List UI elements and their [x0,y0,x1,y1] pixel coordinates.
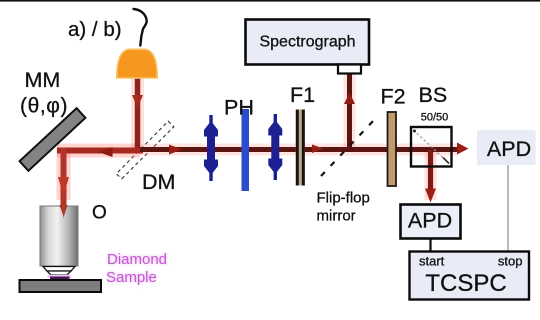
arrow up toward spectrograph [344,93,355,105]
svg-text:BS: BS [419,83,448,107]
svg-text:MM: MM [25,68,61,92]
wire: beam BS down to APD [428,150,433,190]
wire: beam DM to APD (horizontal, detection path) [140,147,458,152]
svg-text:F2: F2 [381,85,406,109]
objective O cylinder [40,206,78,266]
filter F1 [296,110,305,186]
wire APD lower to TCSPC start [429,239,431,252]
svg-text:(θ,φ): (θ,φ) [20,95,68,118]
sample stage [20,280,102,292]
curly brace pointer [134,9,147,46]
wire: beam MM down to objective [61,148,67,206]
svg-text:Spectrograph: Spectrograph [259,34,355,51]
arrow right into APD [457,143,469,155]
wire: beam up to spectrograph [347,74,352,150]
arrow down on source beam [132,95,143,108]
lens L1 [204,115,218,181]
mirror MM [20,108,86,171]
flip-flop mirror (dashed) [321,119,375,176]
svg-text:start: start [419,254,445,269]
filter F2 [388,112,397,186]
arrow down toward objective [58,177,69,196]
wire: beam DM to MM (horizontal) [57,148,143,154]
spectrograph slit [338,65,361,74]
arrow left toward MM [98,147,113,157]
APD right box [477,130,536,165]
TCSPC box [410,252,530,300]
APD lower box [401,205,461,239]
svg-text:Diamond: Diamond [107,251,167,268]
diamond sample [48,275,72,278]
arrow right after F1 [312,145,324,154]
svg-text:F1: F1 [290,83,315,107]
dichroic mirror DM [116,121,174,179]
svg-text:stop: stop [498,254,523,269]
beam glow layer [57,74,458,200]
svg-text:Flip-flop: Flip-flop [317,190,370,207]
beamsplitter BS cube [411,127,452,167]
svg-text:APD: APD [487,137,531,161]
pinhole PH [242,109,250,191]
svg-text:50/50: 50/50 [421,112,449,124]
wire: beam source to DM (vertical) [135,76,141,153]
svg-text:TCSPC: TCSPC [425,270,506,297]
svg-text:APD: APD [408,209,452,233]
arrow right after DM [169,145,182,155]
svg-text:mirror: mirror [317,208,356,225]
top border line [0,0,540,2]
source dome a)/b) [117,49,157,78]
beam converging inside objective [60,205,68,217]
svg-text:PH: PH [224,96,254,120]
lens L2 [268,114,282,180]
svg-text:Sample: Sample [106,269,157,286]
svg-text:O: O [92,203,107,224]
objective tip [43,267,75,272]
arrow down into lower APD [425,189,436,203]
svg-text:DM: DM [142,170,175,194]
spectrograph box [246,20,370,65]
gray wire APD right to TCSPC stop [507,165,509,252]
svg-text:a) / b): a) / b) [68,18,122,41]
